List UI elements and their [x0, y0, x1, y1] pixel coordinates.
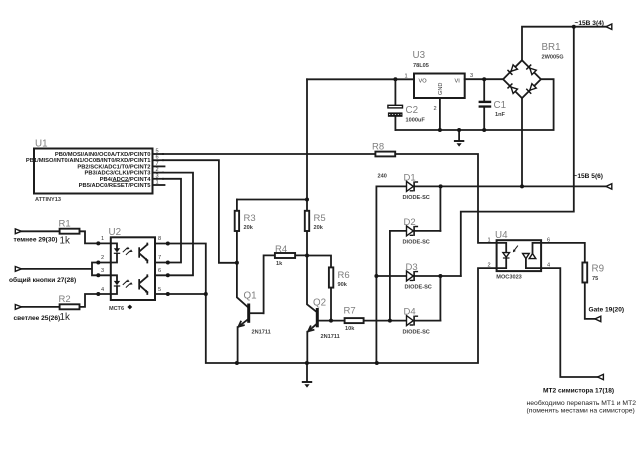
svg-text:6: 6 — [158, 268, 161, 274]
svg-text:C1: C1 — [494, 100, 507, 111]
junction U3 GND pin on rail — [438, 128, 442, 132]
resistor R3 20k — [235, 200, 256, 307]
U2 internal LED lower — [111, 275, 117, 294]
junction D3 left on ground leg — [374, 274, 378, 278]
junction C1 bottom on rail — [482, 128, 486, 132]
U2 internal LED upper — [111, 243, 117, 262]
svg-text:D4: D4 — [404, 307, 416, 318]
wire U2 pin5 stub — [155, 293, 206, 295]
wire BR1 top to AC terminal row — [522, 27, 606, 61]
resistor R8 240 — [372, 142, 395, 180]
svg-text:R2: R2 — [59, 294, 71, 305]
svg-text:7: 7 — [158, 255, 161, 261]
ground symbol below Q2 emitter rail — [302, 363, 312, 388]
svg-text:20k: 20k — [244, 225, 254, 231]
svg-text:R3: R3 — [244, 213, 256, 224]
resistor R4 1k — [264, 244, 307, 313]
U2 internal phototransistor lower — [138, 279, 140, 289]
svg-text:5: 5 — [156, 149, 159, 155]
wire D1 left leg down to D3 and ground rail — [375, 186, 377, 363]
U4 internal triac — [523, 254, 530, 259]
wire U2 pin8 to pin5 to ground rail to U4 pin2 — [155, 244, 497, 364]
svg-text:R4: R4 — [275, 244, 287, 255]
svg-text:8: 8 — [158, 236, 161, 242]
svg-text:2W005G: 2W005G — [542, 55, 564, 61]
junction R4/R5/R6/Q2 collector — [305, 254, 309, 258]
output terminal ~15В 5(6) — [574, 173, 612, 189]
svg-text:R9: R9 — [592, 264, 605, 275]
U2 internal phototransistor upper — [138, 247, 140, 257]
IC U1 ATTINY13 — [26, 139, 165, 204]
svg-text:3: 3 — [156, 173, 159, 179]
wire D1 right to D2 right — [439, 186, 441, 231]
svg-text:1k: 1k — [276, 261, 283, 267]
svg-text:R1: R1 — [59, 219, 71, 230]
svg-text:PB2/SCK/ADC1/T0/PCINT2: PB2/SCK/ADC1/T0/PCINT2 — [77, 164, 150, 170]
svg-text:3: 3 — [470, 73, 473, 79]
wire U4 pin4 to MT2 terminal — [541, 268, 598, 377]
output terminal ~15В 3(4) — [575, 20, 612, 29]
junction ground symbol on rail — [457, 128, 461, 132]
svg-text:U2: U2 — [109, 227, 122, 238]
BR1 diode top-left — [507, 65, 518, 76]
junction C2 tap on U3 output — [393, 77, 397, 81]
ground symbol under U3 rail — [454, 130, 464, 147]
svg-text:VO: VO — [419, 79, 428, 85]
junction R6 bottom on Q2 base line — [329, 319, 333, 323]
node U2 pin2 — [96, 261, 100, 265]
optotriac U4 MOC3023 — [488, 230, 551, 281]
optocoupler U2 MCT6 — [101, 227, 161, 312]
node 5V rail from U3 VO down to R3/R5 rail — [237, 79, 307, 199]
regulator U3 78L05 — [405, 50, 504, 130]
node U2 pin3 — [96, 273, 100, 277]
svg-text:2N1711: 2N1711 — [252, 330, 271, 336]
node ~15В 5(6) row — [376, 185, 606, 187]
junction 5V column on R3/R5 rail — [305, 198, 309, 202]
wire U3 output row to 5V column — [307, 78, 414, 80]
svg-text:240: 240 — [378, 174, 387, 180]
svg-text:U3: U3 — [413, 50, 426, 61]
capacitor C1 1nF — [479, 79, 506, 130]
svg-text:5: 5 — [158, 287, 161, 293]
svg-text:U4: U4 — [495, 230, 508, 241]
ground rail under U3 — [395, 79, 553, 130]
BR1 diode bottom-left — [507, 83, 518, 94]
input terminal общий кнопки 27(28) — [9, 263, 111, 285]
svg-text:ATTINY13: ATTINY13 — [35, 197, 61, 203]
svg-text:Q2: Q2 — [313, 298, 326, 309]
input terminal темнее 29(30) — [14, 229, 58, 244]
svg-text:1nF: 1nF — [495, 112, 506, 118]
svg-text:R7: R7 — [344, 306, 356, 317]
svg-text:R8: R8 — [372, 142, 384, 153]
node U2 pin5 — [166, 292, 170, 296]
wire AC 3(4) down to D3/D4 branch — [461, 27, 574, 276]
resistor R7 10k on Q2 base line — [319, 306, 441, 333]
svg-text:1k: 1k — [60, 236, 70, 247]
svg-text:1000uF: 1000uF — [406, 118, 426, 124]
svg-text:Gate 19(20): Gate 19(20) — [589, 307, 625, 314]
svg-text:необходимо перепаять МТ1 и МТ2: необходимо перепаять МТ1 и МТ2 — [527, 399, 637, 407]
svg-text:2: 2 — [101, 255, 104, 261]
wire U1 pin6 PB1 to R3 column — [163, 160, 237, 263]
svg-text:78L05: 78L05 — [413, 63, 429, 69]
wire input2 to U2 pins 2,3 — [21, 263, 110, 276]
node U2 pin1 — [96, 241, 100, 245]
MCT6 diamond mark — [127, 305, 132, 310]
BR1 diode top-right — [526, 64, 537, 75]
svg-text:R5: R5 — [314, 213, 326, 224]
svg-text:общий кнопки 27(28): общий кнопки 27(28) — [9, 276, 76, 284]
junction BR1 bottom on 5(6) row — [520, 184, 524, 188]
diode D3 DIODE-SC — [407, 271, 419, 281]
svg-text:BR1: BR1 — [542, 42, 561, 53]
svg-text:PB3/ADC3/CLKI/PCINT3: PB3/ADC3/CLKI/PCINT3 — [84, 171, 151, 177]
output terminal Gate 19(20) — [589, 307, 625, 322]
resistor R5 20k — [305, 200, 326, 256]
svg-text:DIODE-SC: DIODE-SC — [405, 285, 432, 291]
U4 internal LED — [497, 243, 507, 268]
svg-text:GND: GND — [438, 83, 444, 95]
svg-text:D1: D1 — [404, 173, 416, 184]
svg-text:темнее 29(30): темнее 29(30) — [14, 237, 58, 244]
svg-text:МТ2 симистора 17(18): МТ2 симистора 17(18) — [543, 388, 614, 395]
svg-text:4: 4 — [101, 287, 104, 293]
svg-text:6: 6 — [156, 155, 159, 161]
svg-text:D2: D2 — [404, 217, 416, 228]
diode D1 DIODE-SC — [407, 181, 419, 191]
svg-text:C2: C2 — [406, 105, 419, 116]
resistor R2 1k — [21, 294, 110, 323]
svg-text:DIODE-SC: DIODE-SC — [403, 195, 430, 201]
wire U1 pin3 PB4 to U2 pin7 — [155, 179, 181, 263]
svg-text:1: 1 — [156, 180, 159, 186]
svg-text:2N1711: 2N1711 — [321, 334, 340, 340]
svg-text:1: 1 — [488, 238, 491, 244]
junction 3(4) row to D3/D4 drop — [572, 25, 576, 29]
BR1 diode bottom-right — [526, 83, 537, 94]
svg-text:1: 1 — [405, 74, 408, 80]
svg-text:DIODE-SC: DIODE-SC — [403, 240, 430, 246]
svg-text:VI: VI — [455, 79, 461, 85]
svg-text:светлее 25(26): светлее 25(26) — [14, 315, 61, 322]
node U2 pin8 — [166, 242, 170, 246]
svg-text:7: 7 — [156, 161, 159, 167]
resistor R1 1k — [21, 219, 110, 247]
resistor R6 90k — [307, 256, 350, 321]
svg-text:MOC3023: MOC3023 — [496, 275, 522, 281]
svg-text:75: 75 — [592, 276, 598, 282]
input terminal светлее 25(26) — [14, 305, 61, 323]
wire R9 to Gate terminal — [585, 283, 595, 319]
svg-text:DIODE-SC: DIODE-SC — [403, 330, 430, 336]
svg-text:PB1/MISO/INT0/AIN1/OC0B/INT0/R: PB1/MISO/INT0/AIN1/OC0B/INT0/RXD/PCINT1 — [26, 158, 151, 164]
node U2 pin6 — [166, 273, 170, 277]
U4 internal arrow — [514, 246, 518, 251]
svg-text:PB0/MOSI/AIN0/OC0A/TXD/PCINT0: PB0/MOSI/AIN0/OC0A/TXD/PCINT0 — [55, 152, 151, 158]
svg-text:Q1: Q1 — [244, 291, 257, 302]
transistor Q2 2N1711 — [307, 256, 340, 364]
wire U4 pin6 to R9 — [541, 243, 585, 263]
svg-text:3: 3 — [101, 268, 104, 274]
junction diode network on ground rail — [375, 361, 379, 365]
junction D2 leg on D4 row — [388, 319, 392, 323]
svg-text:20k: 20k — [314, 225, 324, 231]
wire D3 row — [376, 275, 460, 277]
junction Q1 emitter on ground rail — [235, 361, 239, 365]
junction D4 leg on D3 row — [438, 274, 442, 278]
wire BR1 bottom to ~15В 5(6) row — [521, 98, 523, 186]
output terminal MT2 симистора 17(18) — [527, 374, 637, 414]
svg-text:МСТ6: МСТ6 — [109, 306, 124, 312]
diode D2 DIODE-SC — [407, 226, 419, 236]
svg-text:2: 2 — [434, 106, 437, 112]
svg-text:1: 1 — [101, 236, 104, 242]
wire U1 pin2 PB3 to U2 pin6 — [155, 173, 193, 276]
wire U1 pin5 PB0 row to R8 to U4 pin1 — [163, 154, 497, 243]
junction C1 tap on U3 input — [482, 77, 486, 81]
svg-text:90k: 90k — [338, 282, 348, 288]
resistor R9 75 — [582, 263, 604, 283]
bridge rectifier BR1 2W005G — [503, 42, 563, 98]
diode D4 DIODE-SC — [407, 316, 419, 326]
node U2 pin4 — [96, 292, 100, 296]
junction U2 pin8 leg on pin5 row — [204, 292, 208, 296]
svg-text:PB5/ADC0/RESET/PCINT5: PB5/ADC0/RESET/PCINT5 — [79, 183, 152, 189]
wire D4 right leg up to D3 row — [439, 276, 441, 321]
junction D1 cathode on 5(6) row — [439, 184, 443, 188]
transistor Q1 2N1711 — [238, 291, 271, 364]
svg-text:2: 2 — [156, 167, 159, 173]
svg-text:U1: U1 — [35, 139, 48, 150]
svg-text:~15В 5(6): ~15В 5(6) — [574, 173, 604, 180]
svg-text:10k: 10k — [345, 326, 355, 332]
wire D2 row — [390, 230, 441, 232]
junction Q2 emitter on ground rail — [305, 361, 309, 365]
svg-text:2: 2 — [488, 263, 491, 269]
node U2 pin7 — [166, 261, 170, 265]
svg-text:1k: 1k — [60, 312, 70, 323]
wire D2 left leg down to D4 row — [389, 231, 391, 321]
svg-text:D3: D3 — [406, 262, 418, 273]
svg-text:(поменять местами на симисторе: (поменять местами на симисторе) — [527, 408, 635, 415]
svg-text:~15В 3(4): ~15В 3(4) — [575, 20, 605, 27]
junction U1 pin6 wire on R3 column — [235, 261, 239, 265]
svg-text:R6: R6 — [338, 270, 350, 281]
capacitor C2 1000uF — [388, 79, 425, 130]
